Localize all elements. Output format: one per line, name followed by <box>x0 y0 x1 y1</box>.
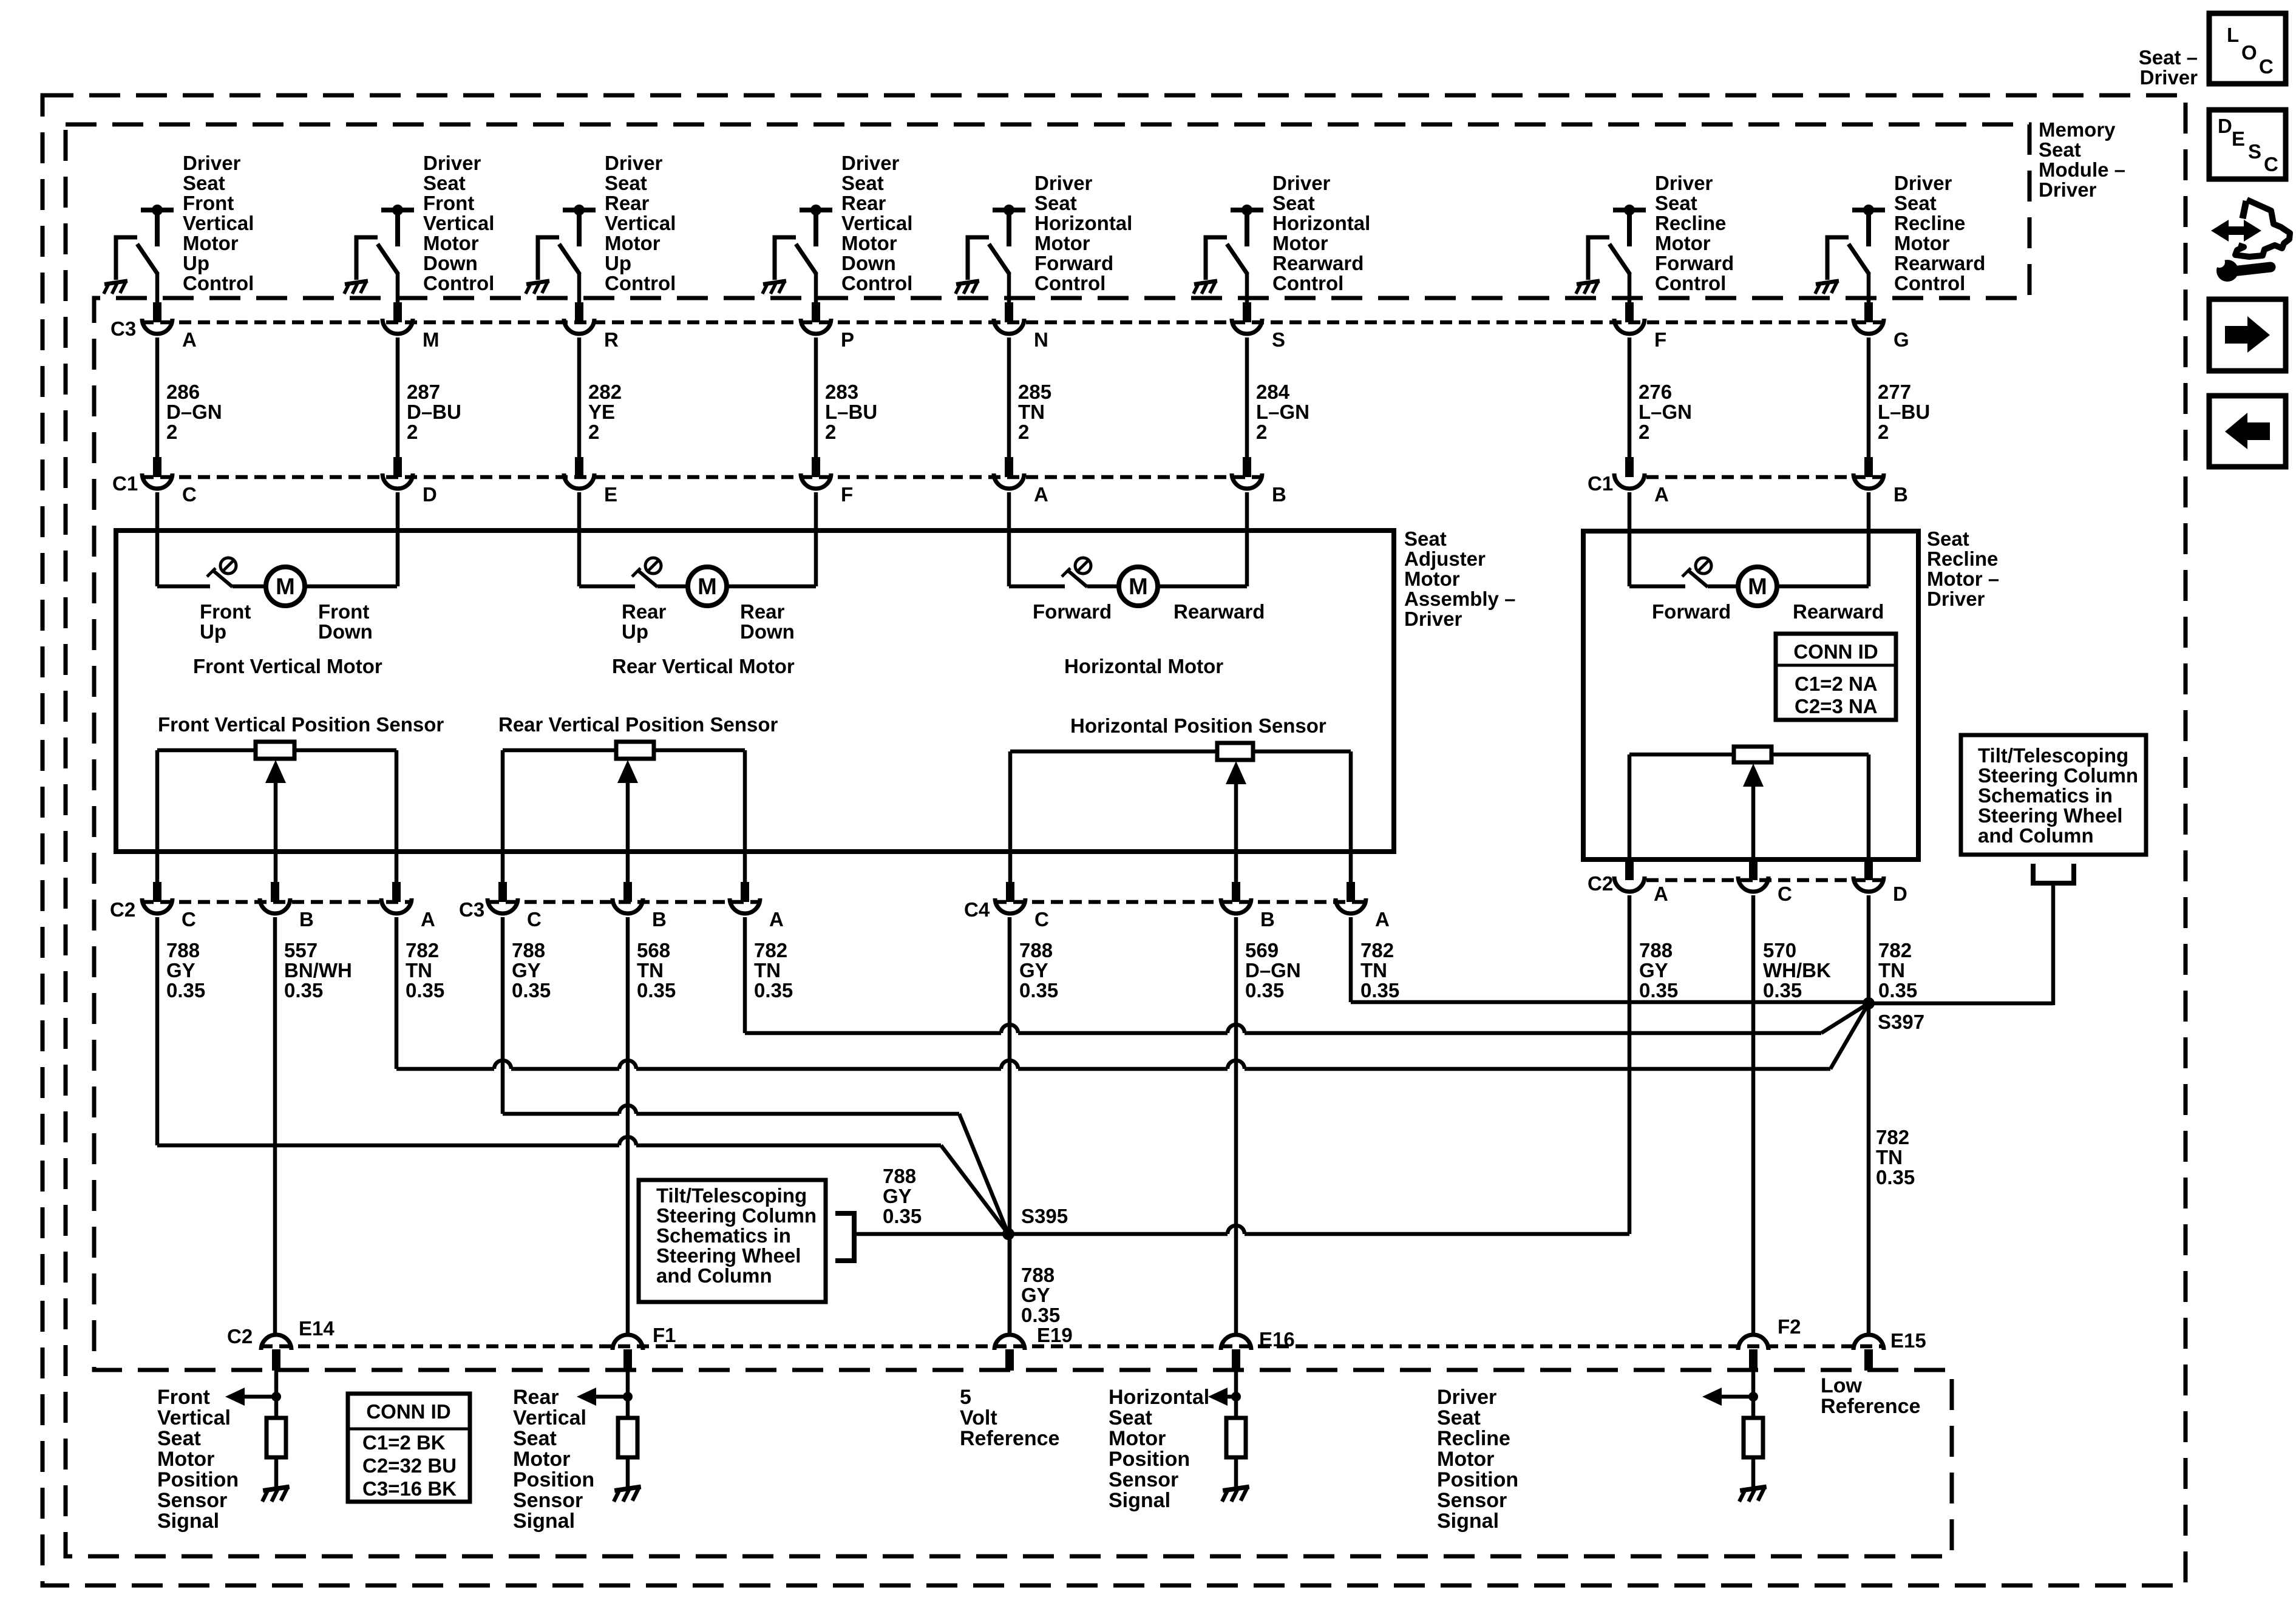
svg-text:Seat: Seat <box>1404 527 1447 550</box>
svg-text:Horizontal: Horizontal <box>1272 212 1370 234</box>
off-page bracket (left) <box>835 1213 854 1261</box>
svg-text:Vertical: Vertical <box>605 212 676 234</box>
svg-text:Motor: Motor <box>423 232 479 254</box>
motor switch actuator symbol <box>220 558 236 574</box>
driver control switch Q4 rear vertical down <box>800 208 832 212</box>
wire S397 to steering column bracket <box>1869 1002 2053 1006</box>
svg-text:Motor: Motor <box>841 232 897 254</box>
svg-text:Low: Low <box>1821 1374 1863 1397</box>
svg-text:Control: Control <box>841 272 912 294</box>
svg-text:Schematics in: Schematics in <box>1978 784 2113 807</box>
svg-text:TN: TN <box>1876 1146 1903 1168</box>
svg-text:Vertical: Vertical <box>183 212 254 234</box>
connector row C2 dotted line (module bottom) <box>260 1344 1884 1349</box>
svg-text:Position: Position <box>1437 1468 1518 1491</box>
connector C1 pin E <box>575 457 583 477</box>
wire switch to pin <box>396 273 400 303</box>
svg-text:0.35: 0.35 <box>1245 979 1284 1002</box>
ground <box>1222 1486 1249 1501</box>
junction S397 <box>1863 997 1875 1009</box>
connector C1 pin B <box>1243 457 1251 477</box>
svg-text:C: C <box>2259 55 2274 78</box>
svg-text:Rear Vertical Position Sensor: Rear Vertical Position Sensor <box>498 713 778 736</box>
svg-text:Down: Down <box>740 620 795 643</box>
svg-text:Seat: Seat <box>1927 527 1969 550</box>
svg-text:L–GN: L–GN <box>1639 401 1692 423</box>
box: Seat Adjuster Motor Assembly - Driver <box>116 531 1394 852</box>
svg-text:Sensor: Sensor <box>513 1489 583 1512</box>
svg-text:Front Vertical Position Sensor: Front Vertical Position Sensor <box>158 713 444 736</box>
svg-text:Vertical: Vertical <box>841 212 912 234</box>
svg-text:Rearward: Rearward <box>1894 252 1985 274</box>
svg-text:A: A <box>1375 908 1390 931</box>
svg-text:Motor: Motor <box>1437 1448 1494 1471</box>
svg-text:Seat: Seat <box>1034 192 1077 214</box>
svg-text:Memory: Memory <box>2039 118 2116 141</box>
svg-text:Driver: Driver <box>1894 172 1952 194</box>
svg-text:782: 782 <box>1876 1126 1909 1148</box>
svg-text:Seat: Seat <box>1437 1406 1481 1429</box>
svg-text:TN: TN <box>1360 959 1387 981</box>
position sensor front vertical (potentiometer) <box>256 742 294 759</box>
svg-text:F1: F1 <box>653 1324 676 1346</box>
svg-text:CONN ID: CONN ID <box>1793 640 1878 663</box>
svg-text:M: M <box>423 328 440 351</box>
module dashed boundary: Memory Seat Module - Driver <box>66 124 2029 1556</box>
svg-text:5: 5 <box>960 1386 971 1409</box>
svg-text:Seat: Seat <box>841 172 884 194</box>
svg-text:Horizontal Motor: Horizontal Motor <box>1064 655 1223 677</box>
sensor wiper arrow <box>1751 784 1756 860</box>
motor circuit M3 horizontal <box>1009 585 1065 589</box>
wire switch to pin <box>155 273 160 303</box>
svg-text:Driver: Driver <box>1034 172 1093 194</box>
junction dot <box>1231 1392 1241 1402</box>
svg-text:L–GN: L–GN <box>1256 401 1309 423</box>
connector pin A <box>392 882 401 902</box>
connector C1 pin B <box>1864 457 1873 477</box>
junction dot <box>1748 1392 1758 1402</box>
wire switch to pin <box>1628 273 1632 303</box>
connector row C3 dotted line <box>141 320 1884 325</box>
wire 570 WH/BK to F2 <box>1751 895 1756 1333</box>
svg-text:782: 782 <box>1878 939 1912 961</box>
motor switch blade <box>207 568 216 577</box>
svg-text:782: 782 <box>754 939 787 961</box>
svg-text:P: P <box>841 328 854 351</box>
motor M circle M2 rear vertical <box>688 567 727 606</box>
signal arrow <box>243 1395 276 1399</box>
connector C1 pin D <box>393 457 402 477</box>
svg-text:F: F <box>1654 328 1666 351</box>
connector C1 pin C <box>153 457 161 477</box>
box: Tilt/Telescoping Steering Column Schematics (left) <box>639 1180 826 1302</box>
svg-text:Recline: Recline <box>1894 212 1965 234</box>
svg-text:E19: E19 <box>1037 1324 1073 1346</box>
svg-text:Reference: Reference <box>1821 1395 1920 1418</box>
svg-text:M: M <box>698 574 717 600</box>
svg-text:O: O <box>2241 41 2257 64</box>
svg-text:282: 282 <box>588 381 622 403</box>
ground <box>956 281 979 294</box>
svg-text:Steering Wheel: Steering Wheel <box>1978 804 2122 827</box>
svg-text:C1=2 BK: C1=2 BK <box>362 1431 446 1454</box>
svg-text:Front: Front <box>318 600 369 623</box>
wire diagonal to S395 (from row 1835) <box>959 1114 1008 1234</box>
ground <box>344 281 368 294</box>
junction dot <box>623 1392 633 1402</box>
wire 788 GY to E19 through S395 <box>1008 917 1012 1333</box>
connector pin B <box>1232 882 1240 902</box>
svg-text:Rearward: Rearward <box>1173 600 1265 623</box>
svg-text:570: 570 <box>1763 939 1796 961</box>
driver control switch Q1 front vertical up <box>141 208 174 212</box>
svg-text:Motor: Motor <box>1034 232 1090 254</box>
connector row C2 dotted line (recline) <box>1646 878 1888 883</box>
svg-text:G: G <box>1894 328 1909 351</box>
svg-text:0.35: 0.35 <box>1876 1166 1915 1188</box>
sensor wiper arrow <box>626 781 630 882</box>
sensor wiper arrow <box>274 781 278 882</box>
connector C3 pin S <box>1243 302 1251 322</box>
svg-text:Steering Column: Steering Column <box>656 1204 817 1227</box>
wire 283 <box>814 337 818 458</box>
svg-text:Seat: Seat <box>1655 192 1697 214</box>
svg-text:D: D <box>423 483 437 506</box>
svg-text:GY: GY <box>166 959 195 981</box>
svg-text:0.35: 0.35 <box>1019 979 1058 1002</box>
svg-text:Seat: Seat <box>157 1427 201 1450</box>
svg-text:Control: Control <box>605 272 676 294</box>
svg-text:Seat –: Seat – <box>2139 46 2198 69</box>
svg-text:L–BU: L–BU <box>825 401 877 423</box>
svg-text:TN: TN <box>754 959 781 981</box>
connector C3 pin F <box>1625 302 1634 322</box>
wire 282 <box>577 337 582 458</box>
wire 569 D-GN to E16 <box>1234 917 1238 1333</box>
svg-text:Rearward: Rearward <box>1272 252 1364 274</box>
svg-text:Sensor: Sensor <box>1437 1489 1507 1512</box>
wire C1 to motor <box>1007 492 1011 586</box>
svg-text:S: S <box>2248 140 2261 163</box>
svg-text:Motor: Motor <box>1404 568 1460 590</box>
wire switch to pin <box>1867 273 1871 303</box>
connector C3 pin M <box>393 302 402 322</box>
svg-text:Rearward: Rearward <box>1793 600 1884 623</box>
connector recline C2 pin A <box>1625 860 1634 880</box>
svg-text:L–BU: L–BU <box>1878 401 1930 423</box>
svg-text:C: C <box>1034 908 1049 931</box>
svg-text:Seat: Seat <box>513 1427 557 1450</box>
wire below E14 front vertical sensor signal <box>274 1371 279 1418</box>
wire C1 to motor <box>396 492 400 586</box>
svg-text:2: 2 <box>825 421 836 443</box>
svg-text:Up: Up <box>200 620 226 643</box>
svg-text:Motor: Motor <box>1655 232 1711 254</box>
svg-text:Volt: Volt <box>960 1406 997 1429</box>
wire 286 <box>155 337 160 458</box>
svg-text:0.35: 0.35 <box>883 1205 922 1227</box>
svg-text:L: L <box>2227 24 2239 46</box>
motor switch blade <box>632 568 640 577</box>
svg-text:E16: E16 <box>1259 1328 1295 1351</box>
svg-text:R: R <box>604 328 619 351</box>
motor switch blade <box>1062 568 1070 577</box>
svg-text:B: B <box>1272 483 1286 506</box>
svg-text:Reference: Reference <box>960 1427 1059 1450</box>
position sensor recline (potentiometer) <box>1734 747 1771 762</box>
position sensor rear vertical (potentiometer) <box>616 742 654 759</box>
connector pin C <box>498 882 507 902</box>
svg-text:B: B <box>1260 908 1275 931</box>
connector C1 pin A <box>1005 457 1013 477</box>
svg-text:0.35: 0.35 <box>754 979 793 1002</box>
svg-text:M: M <box>1129 574 1148 600</box>
svg-text:Motor: Motor <box>1272 232 1328 254</box>
svg-text:C2=32 BU: C2=32 BU <box>362 1454 457 1477</box>
svg-text:Rear: Rear <box>513 1386 559 1409</box>
svg-text:Driver: Driver <box>1272 172 1331 194</box>
svg-text:Motor: Motor <box>183 232 239 254</box>
svg-text:Position: Position <box>1109 1448 1190 1471</box>
junction dot <box>271 1392 281 1402</box>
svg-text:Horizontal Position Sensor: Horizontal Position Sensor <box>1070 714 1326 737</box>
signal arrow <box>1720 1395 1753 1399</box>
svg-text:Assembly –: Assembly – <box>1404 588 1515 610</box>
svg-text:A: A <box>1034 483 1048 506</box>
svg-text:S395: S395 <box>1021 1205 1068 1227</box>
wire resistor to ground <box>1234 1457 1238 1488</box>
svg-text:Driver: Driver <box>1927 588 1985 610</box>
svg-text:N: N <box>1034 328 1048 351</box>
wire diagonal to S397 (from row 1761) <box>1830 1003 1869 1069</box>
svg-text:0.35: 0.35 <box>166 979 205 1002</box>
svg-text:Front: Front <box>200 600 251 623</box>
svg-text:F: F <box>841 483 853 506</box>
svg-text:C: C <box>182 908 196 931</box>
svg-text:Seat: Seat <box>605 172 647 194</box>
svg-text:0.35: 0.35 <box>512 979 551 1002</box>
ground <box>1815 281 1839 294</box>
connector row C2 dotted line <box>141 900 413 904</box>
svg-text:Up: Up <box>622 620 648 643</box>
svg-text:B: B <box>652 908 667 931</box>
svg-text:C: C <box>1778 883 1792 905</box>
svg-text:F2: F2 <box>1778 1315 1801 1338</box>
svg-text:0.35: 0.35 <box>1763 979 1802 1002</box>
connector row C3 dotted line (sensors) <box>487 900 761 904</box>
connector C2 pin E16 <box>1221 1335 1251 1350</box>
connector C2 pin F1 <box>613 1335 643 1350</box>
svg-text:Front: Front <box>423 192 474 214</box>
svg-text:287: 287 <box>407 381 440 403</box>
driver control switch Q5 horizontal forward <box>993 208 1025 212</box>
ground <box>104 281 127 294</box>
svg-text:Motor: Motor <box>605 232 661 254</box>
svg-text:C1=2 NA: C1=2 NA <box>1795 673 1878 695</box>
wire row 782 TN (C4-A to S397) <box>1349 1000 1353 1005</box>
svg-text:Motor: Motor <box>157 1448 214 1471</box>
wire C1 to motor <box>155 492 160 586</box>
svg-text:284: 284 <box>1256 381 1290 403</box>
svg-text:E: E <box>2232 127 2245 150</box>
svg-text:A: A <box>1654 483 1669 506</box>
svg-text:Driver: Driver <box>1437 1386 1496 1409</box>
svg-text:788: 788 <box>1019 939 1053 961</box>
wire switch to pin <box>814 273 818 303</box>
motor circuit M4 recline <box>1629 585 1685 589</box>
icon box LOC <box>2209 13 2286 84</box>
wire resistor to ground <box>1751 1457 1756 1488</box>
svg-text:Control: Control <box>1272 272 1343 294</box>
wire S395 to E19 <box>1008 1234 1012 1333</box>
wire diagonal to S397 (from row 1702) <box>1821 1003 1869 1033</box>
wire resistor to ground <box>274 1457 279 1488</box>
svg-text:2: 2 <box>1639 421 1649 443</box>
wire C1 to motor <box>814 492 818 586</box>
box: Seat Recline Motor - Driver <box>1583 531 1918 859</box>
svg-text:285: 285 <box>1018 381 1051 403</box>
wire switch to pin <box>1007 273 1011 303</box>
svg-text:C: C <box>2264 153 2278 175</box>
connector C3 pin A <box>153 302 161 322</box>
driver control switch Q7 recline forward <box>1613 208 1646 212</box>
svg-text:C3: C3 <box>110 317 136 340</box>
icon: tilt/telescoping adjust (arrow, hand, wrench) <box>2211 220 2261 242</box>
wire 287 <box>396 337 400 458</box>
svg-text:E: E <box>604 483 617 506</box>
svg-text:Control: Control <box>1655 272 1726 294</box>
svg-text:Schematics in: Schematics in <box>656 1224 791 1247</box>
wire diagonal to S395 (from row 1887) <box>941 1145 1008 1234</box>
svg-text:C: C <box>527 908 542 931</box>
connector pin B <box>623 882 632 902</box>
svg-text:M: M <box>1748 574 1767 600</box>
svg-text:Motor: Motor <box>513 1448 570 1471</box>
position sensor horizontal (potentiometer) <box>1217 743 1253 760</box>
svg-text:Tilt/Telescoping: Tilt/Telescoping <box>1978 744 2128 767</box>
svg-text:0.35: 0.35 <box>1021 1304 1060 1326</box>
motor switch actuator symbol <box>645 558 661 574</box>
svg-text:Forward: Forward <box>1655 252 1734 274</box>
svg-text:Vertical: Vertical <box>157 1406 231 1429</box>
svg-text:Driver: Driver <box>605 152 663 174</box>
svg-text:Seat: Seat <box>1109 1406 1152 1429</box>
svg-text:Control: Control <box>183 272 254 294</box>
svg-text:Front Vertical Motor: Front Vertical Motor <box>193 655 382 677</box>
svg-text:557: 557 <box>284 939 318 961</box>
svg-text:TN: TN <box>637 959 664 981</box>
svg-text:0.35: 0.35 <box>637 979 676 1002</box>
svg-text:Seat: Seat <box>1272 192 1315 214</box>
wire below F1 rear vertical sensor signal <box>626 1371 630 1418</box>
svg-text:0.35: 0.35 <box>1360 979 1399 1002</box>
connector row C1 dotted line (right) <box>1646 475 1888 480</box>
svg-text:Driver: Driver <box>183 152 241 174</box>
connector pin A <box>1347 882 1355 902</box>
svg-text:Sensor: Sensor <box>157 1489 227 1512</box>
svg-text:A: A <box>421 908 435 931</box>
svg-text:569: 569 <box>1245 939 1279 961</box>
svg-text:A: A <box>769 908 784 931</box>
svg-text:GY: GY <box>883 1185 912 1207</box>
wire 276 <box>1628 337 1632 458</box>
svg-text:Control: Control <box>423 272 494 294</box>
wire 277 <box>1867 337 1871 458</box>
wire 788 GY to S395 row <box>501 917 505 1114</box>
junction S395 <box>1002 1228 1014 1240</box>
svg-text:Up: Up <box>183 252 209 274</box>
wire row 782 TN (C2-A to S397) <box>396 1067 494 1071</box>
svg-text:GY: GY <box>1019 959 1048 981</box>
svg-text:S397: S397 <box>1878 1011 1924 1033</box>
svg-text:Recline: Recline <box>1437 1427 1510 1450</box>
svg-text:Driver: Driver <box>2039 178 2097 201</box>
box: Tilt/Telescoping Steering Column Schematics (right) <box>1961 735 2146 855</box>
ground <box>763 281 786 294</box>
wire C1 to motor <box>1628 492 1632 586</box>
svg-text:and Column: and Column <box>1978 824 2094 847</box>
svg-text:Motor: Motor <box>1109 1427 1166 1450</box>
svg-text:CONN ID: CONN ID <box>366 1400 450 1423</box>
connector C1 pin F <box>812 457 820 477</box>
motor M circle M3 horizontal <box>1119 567 1158 606</box>
svg-text:782: 782 <box>1360 939 1394 961</box>
wire below F2 recline sensor signal <box>1751 1371 1756 1418</box>
wire C1 to motor <box>1245 492 1249 586</box>
wire 568 TN to F1 <box>626 917 630 1333</box>
resistor (F2 recline sensor signal) <box>1744 1418 1763 1457</box>
svg-text:Rear: Rear <box>605 192 650 214</box>
svg-text:2: 2 <box>588 421 599 443</box>
svg-text:C1: C1 <box>1588 472 1613 495</box>
signal arrow <box>595 1395 628 1399</box>
svg-text:C3: C3 <box>459 898 484 921</box>
svg-text:0.35: 0.35 <box>1878 979 1917 1002</box>
svg-text:B: B <box>299 908 314 931</box>
driver control switch Q2 front vertical down <box>381 208 414 212</box>
motor circuit M2 rear vertical <box>579 585 635 589</box>
connector C3 pin G <box>1864 302 1873 322</box>
svg-text:283: 283 <box>825 381 858 403</box>
connector pin C <box>1006 882 1014 902</box>
svg-text:0.35: 0.35 <box>284 979 323 1002</box>
wire C1 to motor <box>1867 492 1871 586</box>
svg-text:TN: TN <box>1878 959 1905 981</box>
svg-text:0.35: 0.35 <box>406 979 444 1002</box>
svg-text:Driver: Driver <box>2140 66 2198 89</box>
svg-text:Signal: Signal <box>157 1510 219 1533</box>
svg-text:276: 276 <box>1639 381 1672 403</box>
svg-text:Rear Vertical Motor: Rear Vertical Motor <box>612 655 795 677</box>
svg-text:Signal: Signal <box>513 1510 575 1533</box>
svg-text:Control: Control <box>1894 272 1965 294</box>
svg-text:Driver: Driver <box>423 152 481 174</box>
wire 788 GY recline to S395 row <box>1628 895 1632 1234</box>
svg-text:A: A <box>182 328 197 351</box>
sensor wiper arrow <box>1234 782 1238 882</box>
svg-text:Vertical: Vertical <box>513 1406 586 1429</box>
svg-text:E15: E15 <box>1890 1329 1926 1352</box>
icon: arrow next (right) <box>2209 299 2286 371</box>
icon: arrow previous (left) <box>2209 396 2286 467</box>
svg-text:D–BU: D–BU <box>407 401 461 423</box>
svg-text:Sensor: Sensor <box>1109 1468 1178 1491</box>
wire 285 <box>1007 337 1011 458</box>
svg-text:GY: GY <box>512 959 541 981</box>
svg-text:D–GN: D–GN <box>1245 959 1301 981</box>
connector row C4 dotted line <box>994 900 1367 904</box>
